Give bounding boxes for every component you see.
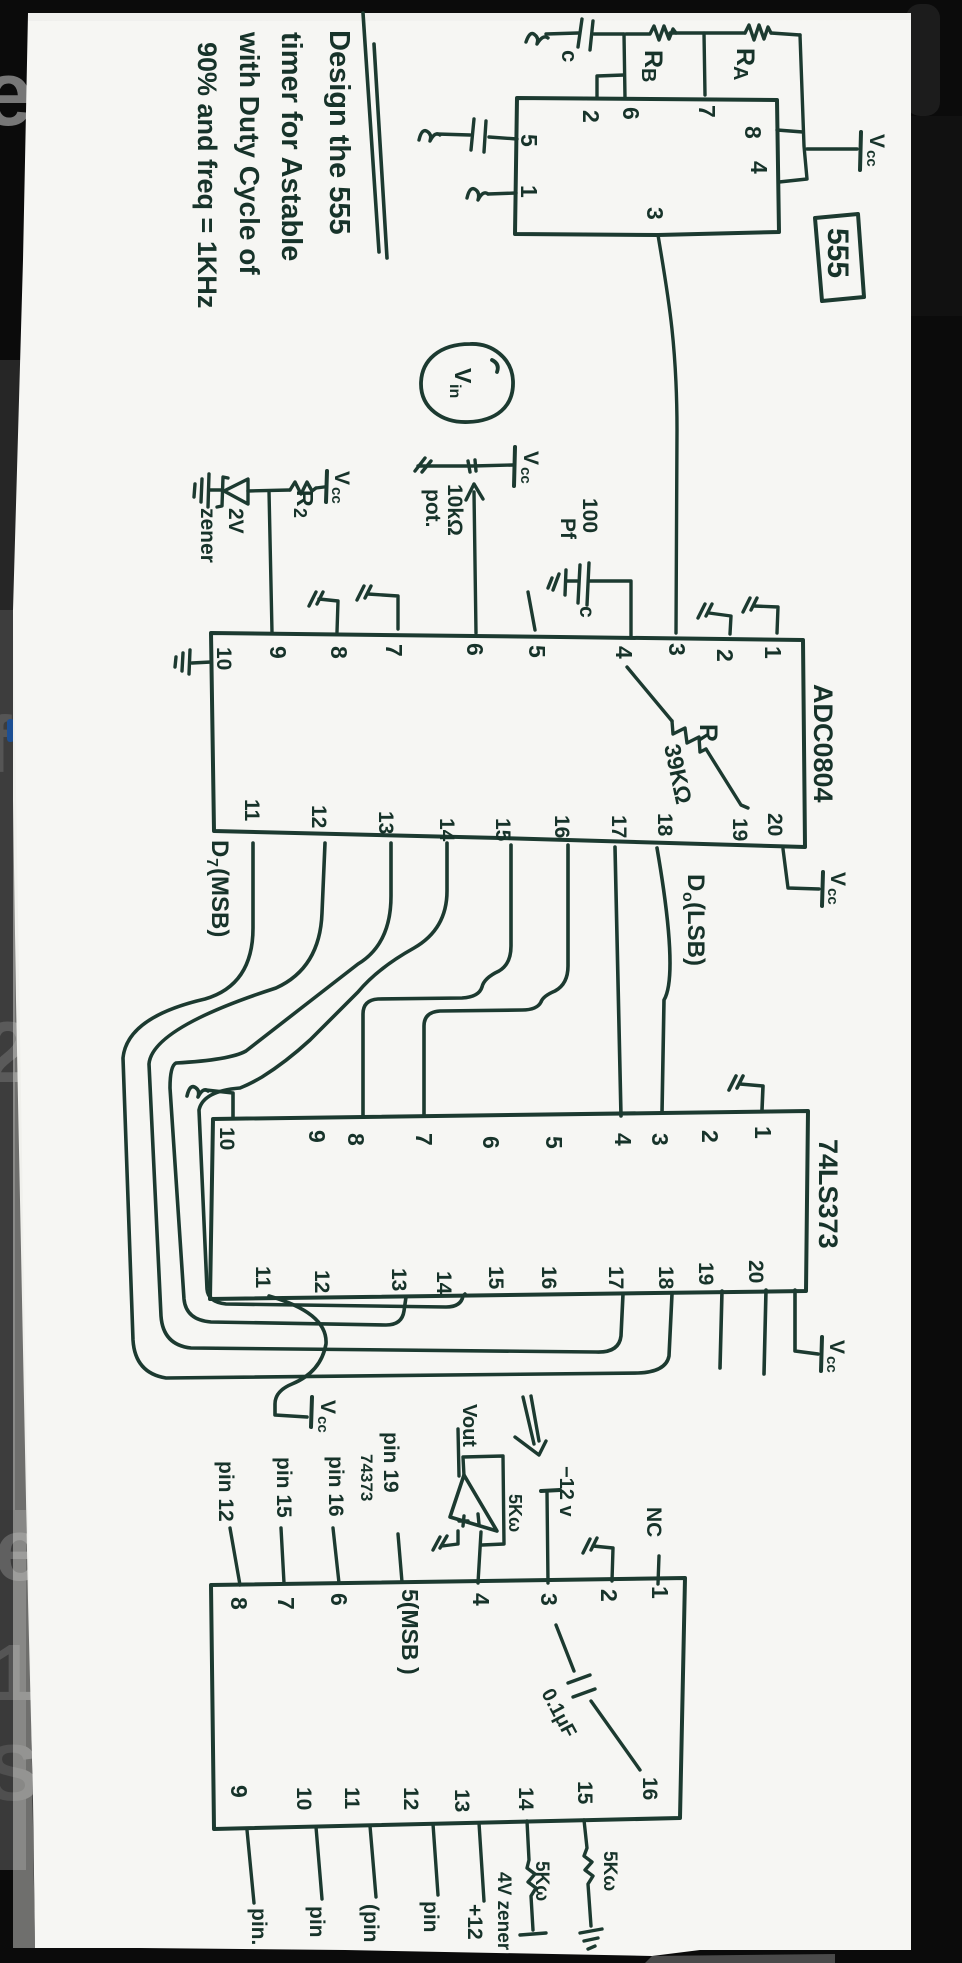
ground hook DAC pin 2 [593, 1546, 613, 1581]
svg-text:3: 3 [664, 643, 690, 656]
svg-text:9: 9 [304, 1130, 330, 1143]
svg-text:c: c [557, 50, 582, 62]
op-amp U5 triangle [450, 1475, 497, 1531]
svg-text:2: 2 [596, 1589, 622, 1602]
555 label box [815, 214, 864, 301]
INK [192, 13, 888, 633]
wire ground to zener [209, 488, 222, 491]
svg-text:7: 7 [381, 644, 407, 657]
capacitor C5 plate 1 [484, 121, 486, 152]
wire RA to Vcc rail corner [771, 33, 800, 35]
svg-text:17: 17 [604, 1266, 627, 1289]
svg-text:16: 16 [550, 815, 573, 838]
svg-text:8: 8 [740, 126, 766, 139]
bus wire ADC11 to 373 pin18 (D7) [123, 843, 672, 1378]
svg-text:7: 7 [411, 1133, 437, 1146]
stub 373 pin 20a [764, 1290, 766, 1374]
wire pin7 to RA [705, 31, 745, 34]
svg-text:5Kω: 5Kω [505, 1494, 525, 1532]
svg-text:6: 6 [478, 1136, 504, 1149]
wire cap to node 2/6 [594, 32, 623, 35]
wire ground to C3 [566, 579, 577, 582]
wire Vout [458, 1429, 459, 1476]
svg-text:18: 18 [654, 1266, 677, 1290]
Vcc bar at pot [514, 447, 515, 486]
svg-text:cc: cc [517, 467, 534, 484]
ground ticks ADC pin 2 [698, 604, 712, 618]
ground hook 373 pin 10 [206, 1090, 233, 1118]
op-amp minus input mark [478, 1514, 479, 1524]
bus wire ADC16 to 373 pin7 (D2) [424, 845, 568, 1116]
svg-text:Pf: Pf [556, 518, 579, 540]
svg-text:2: 2 [712, 649, 738, 662]
svg-text:15: 15 [491, 818, 514, 842]
capacitor 0.1uF plate 2 [573, 1689, 595, 1697]
ground squiggle 373 pin 10 [187, 1087, 208, 1097]
bus wire ADC14 to 373 pin14 (D4) [199, 843, 465, 1307]
svg-text:7: 7 [203, 858, 220, 867]
wire DAC pin 12 down [433, 1824, 438, 1895]
svg-text:5(MSB ): 5(MSB ) [397, 1589, 423, 1675]
ground ticks at op-amp plus [433, 1536, 447, 1550]
pot wiper arrowhead [466, 484, 483, 500]
svg-text:B: B [637, 68, 659, 82]
bus wire ADC13 to 373 pin13 (D5) [170, 843, 406, 1325]
wire pin 6 [624, 34, 625, 98]
svg-text:in: in [446, 384, 463, 398]
svg-text:3: 3 [647, 1133, 673, 1146]
svg-text:13: 13 [387, 1268, 410, 1291]
svg-text:R: R [731, 48, 759, 66]
svg-text:V: V [865, 134, 888, 148]
ground bars ADC pin 10 [175, 650, 190, 674]
ground bar 100pF [565, 570, 566, 595]
stub 373 pin 19 [720, 1291, 722, 1368]
svg-text:5: 5 [541, 1136, 567, 1149]
svg-text:9: 9 [265, 646, 291, 659]
svg-text:cc: cc [328, 487, 345, 504]
svg-text:cc: cc [824, 888, 841, 905]
svg-text:12: 12 [307, 805, 330, 828]
wire DAC pin 9 down [247, 1830, 254, 1903]
ground ticks DAC pin 2 [583, 1538, 597, 1553]
svg-text:V: V [825, 1340, 848, 1354]
svg-text:V: V [519, 451, 542, 465]
ground squiggle pin 1 [467, 189, 488, 200]
svg-text:V: V [450, 368, 476, 384]
svg-text:−12 v: −12 v [555, 1466, 577, 1517]
pot wiper arrow wire to ADC pin 6 [474, 492, 476, 633]
wire R2 to Vcc [316, 487, 324, 488]
wire DAC pin 11 down [370, 1826, 376, 1897]
feedback loop wire with 5K [463, 1456, 504, 1545]
capacitor C1 plate 2 [590, 21, 593, 50]
svg-text:8: 8 [326, 646, 352, 659]
svg-text:ADC0804: ADC0804 [808, 684, 838, 803]
svg-text:555: 555 [821, 228, 854, 278]
wire pin 7 [704, 33, 705, 95]
svg-text:V: V [826, 872, 849, 886]
svg-text:(LSB): (LSB) [682, 902, 709, 966]
wire C3 to ADC pin 4 [589, 581, 631, 637]
IC U2 ADC0804 box [211, 633, 805, 847]
svg-text:2: 2 [578, 110, 604, 123]
svg-text:16: 16 [638, 1777, 661, 1800]
svg-text:(MSB): (MSB) [206, 868, 233, 937]
svg-text:cc: cc [863, 150, 880, 167]
wire ADC pin 5 stub [528, 592, 535, 630]
svg-text:19: 19 [694, 1262, 717, 1285]
svg-text:10kΩ: 10kΩ [443, 484, 466, 536]
svg-text:pin: pin [305, 1906, 328, 1938]
wire zener to node [248, 490, 290, 491]
Vcc bar at R2 [326, 471, 327, 502]
svg-text:14: 14 [514, 1787, 537, 1811]
svg-text:12: 12 [310, 1270, 333, 1293]
ground hook 373 pin 1 [740, 1084, 763, 1110]
svg-text:3: 3 [536, 1593, 562, 1606]
zener D1 cathode bar [217, 477, 228, 507]
ground bar at pin15 bottom [580, 1929, 602, 1949]
svg-text:5Kω: 5Kω [531, 1861, 552, 1901]
ground hook ADC pin 8 [319, 599, 338, 632]
svg-text:74373: 74373 [357, 1454, 376, 1501]
wire 373 pin 11 to Vcc (S curve) [269, 1296, 326, 1417]
wire pin 1 [488, 193, 516, 194]
svg-text:R: R [694, 724, 722, 742]
IC U1 555 box [515, 98, 779, 235]
wire 373 pin 20 to Vcc [795, 1290, 818, 1354]
ground hook ADC pin 2 [709, 613, 731, 634]
wire pin 2 jog [597, 75, 624, 97]
svg-text:14: 14 [432, 1271, 455, 1295]
bus wire ADC12 to 373 pin17 (D6) [149, 843, 623, 1352]
wire RB to pin 7 [670, 31, 703, 34]
svg-text:13: 13 [450, 1789, 473, 1812]
bus wire ADC18 to 373 pin3 (D0) [657, 848, 670, 1113]
wire DAC pin 14 with 5K resistor [527, 1821, 536, 1930]
svg-text:A: A [729, 66, 751, 80]
wire ADC pin 20 to Vcc [783, 849, 819, 889]
svg-text:10: 10 [215, 1127, 238, 1150]
SCREEN_CHROME [906, 4, 940, 116]
svg-text:10: 10 [292, 1787, 315, 1810]
Vcc bar at ADC pin 20 [822, 872, 823, 906]
svg-text:8: 8 [226, 1597, 252, 1610]
svg-text:D: D [682, 874, 709, 891]
wire DAC pin 10 down [316, 1827, 322, 1899]
title double underline [363, 13, 387, 258]
svg-text:cc: cc [823, 1356, 840, 1373]
wire ADC pin 10 ground [192, 662, 211, 663]
ground ticks 373 pin 1 [729, 1076, 743, 1090]
svg-text:15: 15 [484, 1266, 507, 1290]
capacitor 0.1uF wire from pin 3 [556, 1625, 574, 1671]
resistor R 39K diagonal wire [627, 667, 672, 721]
wire DAC pin 6 to label [333, 1528, 339, 1583]
svg-text:+12: +12 [463, 1904, 486, 1940]
svg-text:14: 14 [435, 818, 458, 842]
svg-text:20: 20 [763, 813, 786, 836]
svg-text:pin.: pin. [247, 1908, 270, 1945]
zener D1 triangle [224, 479, 248, 504]
wire rail to cap C1 [546, 33, 578, 34]
wire DAC pin 13 down [479, 1823, 484, 1901]
zener D1 ground bars [194, 474, 209, 507]
svg-text:2: 2 [697, 1130, 723, 1143]
svg-text:timer for Astable: timer for Astable [275, 32, 307, 261]
capacitor C5 plate 2 [471, 119, 474, 150]
svg-text:(pin: (pin [359, 1904, 382, 1942]
resistor R2 [290, 482, 316, 494]
svg-text:10: 10 [212, 647, 235, 670]
svg-text:4V zener: 4V zener [493, 1872, 514, 1951]
svg-text:8: 8 [343, 1133, 369, 1146]
pot left end ticks [415, 458, 431, 472]
svg-text:c: c [575, 606, 598, 618]
svg-text:Vout: Vout [458, 1404, 480, 1447]
resistor R 39K zigzag [672, 721, 706, 752]
wire DAC pin 5 to label [398, 1534, 402, 1582]
svg-text:pin 15: pin 15 [272, 1457, 295, 1518]
svg-text:3: 3 [642, 207, 668, 220]
svg-text:pin: pin [419, 1901, 442, 1933]
svg-text:18: 18 [653, 813, 676, 837]
svg-text:V: V [316, 1400, 339, 1414]
svg-text:1: 1 [647, 1586, 673, 1599]
svg-text:11: 11 [240, 799, 263, 822]
resistor RA [745, 25, 771, 40]
svg-text:zener: zener [196, 508, 219, 563]
svg-text:pot.: pot. [421, 489, 444, 527]
svg-text:4: 4 [611, 646, 637, 659]
ground hook ADC pin 1 [754, 606, 778, 633]
svg-text:74LS373: 74LS373 [813, 1139, 843, 1249]
svg-text:1: 1 [750, 1126, 776, 1139]
svg-text:11: 11 [251, 1266, 274, 1289]
ground ticks 100pF [548, 574, 559, 590]
wire minus input to DAC pin 4 [478, 1532, 481, 1583]
svg-text:6: 6 [618, 107, 644, 120]
capacitor C3 plate 1 [578, 565, 580, 603]
wire node to ADC pin 9 [269, 491, 272, 632]
ground at top rail left (squiggle) [526, 34, 548, 44]
svg-text:o: o [679, 892, 696, 902]
pot wiper tick [468, 460, 476, 472]
ground hook ADC pin 7 [368, 594, 398, 629]
wire DAC pin 8 to label [230, 1528, 240, 1585]
svg-text:with Duty Cycle of: with Duty Cycle of [234, 31, 265, 275]
IC U4 DAC0808 box [211, 1578, 685, 1829]
svg-text:R: R [292, 490, 318, 507]
svg-text:2V: 2V [224, 508, 247, 534]
svg-text:13: 13 [374, 811, 397, 834]
svg-text:7: 7 [694, 105, 720, 118]
capacitor C3 plate 2 [587, 563, 589, 605]
potentiometer track wire [418, 465, 513, 466]
svg-text:NC: NC [642, 1507, 665, 1537]
wire plus input to ground [442, 1531, 458, 1546]
svg-text:1: 1 [516, 185, 542, 198]
minus 12V bar [541, 1490, 560, 1491]
Vin source circle [421, 344, 513, 422]
svg-text:V: V [330, 471, 353, 485]
annotation double arrow [515, 1396, 546, 1455]
svg-text:19: 19 [728, 818, 751, 841]
bar at pin14 bottom [520, 1933, 546, 1935]
ground ticks ADC pin 1 [743, 598, 757, 612]
capacitor 0.1uF plate 1 [568, 1675, 590, 1683]
svg-text:5: 5 [516, 134, 542, 147]
svg-text:90% and freq = 1KHz: 90% and freq = 1KHz [192, 42, 222, 308]
svg-text:20: 20 [744, 1260, 767, 1283]
svg-text:pin 19: pin 19 [379, 1432, 402, 1493]
svg-text:5Kω: 5Kω [599, 1851, 620, 1891]
Vcc bar at 555 [860, 132, 861, 170]
svg-text:11: 11 [340, 1787, 363, 1810]
svg-text:pin 16: pin 16 [324, 1456, 347, 1517]
svg-text:f: f [0, 700, 12, 789]
svg-text:6: 6 [462, 643, 488, 656]
capacitor 0.1uF wire to pin 16 [591, 1701, 640, 1770]
ground ticks ADC pin 8 [309, 592, 323, 606]
svg-text:17: 17 [607, 815, 630, 838]
svg-text:2: 2 [290, 508, 310, 518]
wire C5 to ground [437, 134, 470, 135]
wire Vcc stub [807, 147, 857, 150]
wire 555 pin 3 to ADC pin 3 [658, 235, 677, 633]
Vcc bar at 373 pin 11 [311, 1397, 312, 1427]
svg-text:6: 6 [326, 1593, 352, 1606]
bus wire ADC15 to 373 pin8 (D3) [363, 845, 511, 1115]
svg-text:pin 12: pin 12 [214, 1461, 237, 1522]
svg-text:D: D [206, 840, 233, 857]
svg-text:9: 9 [226, 1785, 252, 1798]
bus wire ADC17 to 373 pin4 (D1) [615, 847, 621, 1116]
wire NC dash to DAC pin 1 [658, 1556, 659, 1584]
wire pin 5 [489, 137, 517, 139]
svg-text:5: 5 [524, 645, 550, 658]
svg-text:100: 100 [578, 498, 601, 533]
resistor RB [626, 26, 676, 40]
capacitor C1 plate 1 [578, 19, 582, 47]
svg-text:4: 4 [468, 1593, 494, 1606]
wire R to ADC pin 19 [706, 749, 748, 808]
svg-text:cc: cc [314, 1416, 331, 1433]
op-amp plus input mark [459, 1516, 468, 1526]
wire DAC pin 15 with 5K resistor [584, 1820, 593, 1926]
svg-text:15: 15 [573, 1781, 596, 1805]
svg-text:4: 4 [610, 1133, 636, 1146]
svg-text:R: R [639, 50, 667, 68]
svg-text:12: 12 [399, 1787, 422, 1810]
svg-text:1: 1 [760, 646, 786, 659]
wire -12V to DAC pin 3 [547, 1492, 548, 1583]
ground ticks ADC pin 7 [357, 586, 371, 600]
svg-text:7: 7 [273, 1597, 299, 1610]
Vcc bar at 373 pin 20 [821, 1337, 822, 1371]
svg-text:4: 4 [746, 161, 772, 174]
wire pin 8 [777, 130, 803, 132]
ground squiggle pin 5 [419, 131, 440, 141]
wire Vcc vertical [779, 35, 807, 182]
IC U3 74LS373 box [210, 1111, 808, 1299]
svg-text:Design the 555: Design the 555 [323, 30, 355, 235]
svg-text:16: 16 [537, 1266, 560, 1289]
wire DAC pin 7 to label [281, 1528, 284, 1583]
